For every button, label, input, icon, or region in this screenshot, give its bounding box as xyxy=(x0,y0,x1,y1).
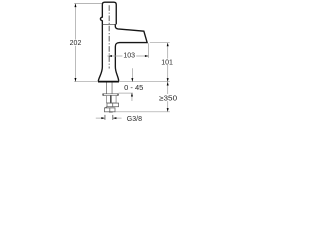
G3/8 extension tick left xyxy=(104,115,106,120)
hose fitting diagonal xyxy=(105,107,107,108)
hose fitting lower divider xyxy=(109,108,111,112)
arrow left 103 xyxy=(108,55,112,57)
arrow down 202 xyxy=(74,78,76,82)
faucet right side + spout xyxy=(115,24,147,81)
dimension line 202 xyxy=(74,4,76,82)
G3/8 dimension line left xyxy=(96,117,105,119)
label 103 xyxy=(122,52,136,58)
extension line top (202) xyxy=(74,3,102,5)
hose fitting lower dark bottom segment xyxy=(109,111,113,113)
hose fitting upper divider xyxy=(112,103,114,107)
locknut xyxy=(106,95,116,103)
svg-text:0 - 45: 0 - 45 xyxy=(124,85,143,92)
extension line spout tip horizontal (101) xyxy=(150,42,170,44)
arrow up 0-45 xyxy=(131,93,133,97)
arrow down 0-45 xyxy=(131,78,133,82)
deck line xyxy=(74,81,170,83)
dimension line 103 xyxy=(107,55,148,57)
arrow right-pointing G3/8 xyxy=(101,117,105,119)
arrow up 101 xyxy=(167,43,169,47)
base bottom edge xyxy=(98,81,119,83)
hose fitting upper xyxy=(107,103,119,107)
dimension 0-45 lower shaft xyxy=(131,93,133,101)
handle joint line xyxy=(102,23,115,25)
threaded shank left line xyxy=(105,83,107,94)
label >=350 xyxy=(158,94,178,101)
svg-text:103: 103 xyxy=(123,53,135,60)
svg-text:101: 101 xyxy=(161,59,173,66)
arrow right 103 xyxy=(145,55,149,57)
extension line spout tip vertical (103) xyxy=(148,43,150,58)
faucet body left side + base flare xyxy=(98,24,102,81)
svg-text:202: 202 xyxy=(70,40,82,47)
washer extension line (0-45 lower ref) xyxy=(119,92,133,94)
arrow down >=350 xyxy=(167,108,169,112)
dimension 0-45 upper shaft xyxy=(131,68,133,81)
bottom reference line xyxy=(115,111,170,113)
locknut inner edge xyxy=(110,95,112,103)
centerline of faucet body xyxy=(108,5,110,68)
dimension line >=350 xyxy=(167,82,169,112)
washer end caps xyxy=(103,94,118,96)
hose fitting lower xyxy=(104,108,115,112)
arrow left-pointing G3/8 xyxy=(113,117,117,119)
washer under deck xyxy=(103,94,119,96)
G3/8 extension tick right xyxy=(112,115,114,120)
svg-text:≥350: ≥350 xyxy=(159,95,177,102)
label 101 xyxy=(161,59,174,65)
faucet handle cap xyxy=(100,2,116,24)
dimension line 101 xyxy=(167,43,169,82)
arrow down 101 xyxy=(167,78,169,82)
arrow up >=350 xyxy=(167,82,169,86)
arrow up 202 xyxy=(74,4,76,8)
svg-text:G3/8: G3/8 xyxy=(127,116,142,123)
G3/8 dimension line right xyxy=(113,117,122,119)
label 202 xyxy=(69,40,83,46)
threaded shank right line xyxy=(111,83,113,94)
